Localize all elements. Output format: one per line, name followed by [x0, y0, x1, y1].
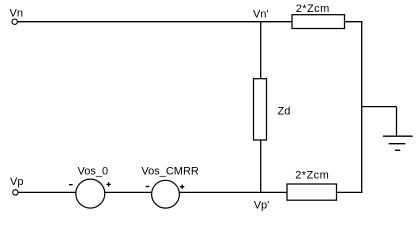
wire Vos_0 to Vos_CMRR: [105, 191, 152, 193]
resistor 2*Zcm top body: [292, 15, 345, 29]
wire ground branch horizontal: [362, 106, 397, 108]
resistor Zd body: [254, 79, 267, 140]
wire ground stub vertical: [396, 107, 398, 137]
ground symbol bar 3: [395, 149, 400, 151]
wire Vos_CMRR to bottom resistor: [180, 191, 287, 193]
svg-text:Vn: Vn: [10, 8, 23, 20]
wire vertical Zd bottom to Vp' node: [260, 140, 262, 192]
polarity plus of Vos_0: [106, 182, 110, 186]
voltage source Vos_CMRR circle: [152, 180, 180, 208]
svg-text:Zd: Zd: [278, 105, 291, 117]
voltage source Vos_0 circle: [76, 179, 105, 208]
ground symbol bar 1: [383, 135, 413, 137]
wire vertical Vn' junction down to Zd: [260, 22, 262, 79]
terminal Vn port circle: [12, 19, 17, 24]
svg-text:Vp': Vp': [254, 200, 270, 212]
terminal Vp port circle: [13, 190, 18, 195]
svg-text:Vos_CMRR: Vos_CMRR: [141, 165, 199, 177]
resistor 2*Zcm bottom body: [287, 184, 337, 200]
polarity minus of Vos_0: [69, 184, 73, 186]
wire bottom resistor right to right bus: [337, 191, 363, 193]
wire Vp to Vos_0 source: [18, 191, 76, 193]
svg-text:2*Zcm: 2*Zcm: [296, 3, 330, 15]
svg-text:Vp: Vp: [10, 176, 23, 188]
ground symbol bar 2: [389, 143, 406, 145]
svg-text:2*Zcm: 2*Zcm: [295, 170, 329, 182]
polarity plus of Vos_CMRR: [180, 185, 184, 189]
wire right vertical bus: [361, 21, 363, 193]
svg-text:Vos_0: Vos_0: [78, 166, 109, 178]
polarity minus of Vos_CMRR: [146, 186, 150, 188]
wire top resistor right to right bus corner: [345, 21, 363, 23]
svg-text:Vn': Vn': [253, 9, 269, 21]
wire top horizontal Vn to top resistor: [17, 21, 292, 23]
